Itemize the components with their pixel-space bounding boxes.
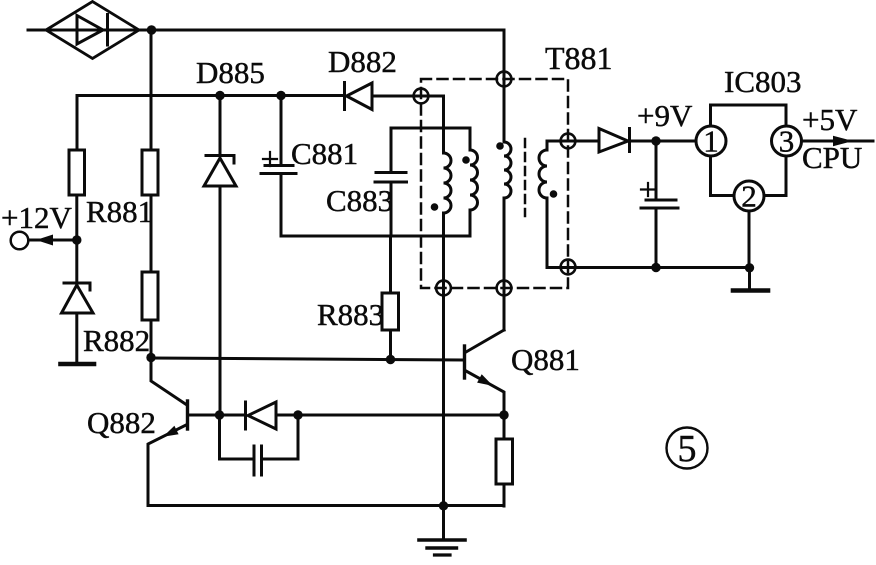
zener diode D885 — [204, 96, 236, 416]
node: R882 / Q882 collector junction — [146, 353, 155, 362]
node: bottom rail / winding ground column — [439, 501, 448, 510]
terminal circle: feedback bottom — [436, 281, 451, 296]
bridge rectifier diamond — [46, 2, 139, 59]
svg-text:+5V: +5V — [802, 102, 858, 137]
resistor (unlabeled) left column — [69, 150, 85, 195]
marker: circled figure 5 — [667, 428, 708, 469]
svg-text:C881: C881 — [291, 136, 358, 171]
transformer T881 shield box (dashed) — [421, 79, 568, 288]
wire: snubber bottom rail — [281, 235, 470, 238]
node: R883 / base line junction — [386, 355, 395, 364]
svg-text:5: 5 — [678, 428, 697, 470]
svg-text:R881: R881 — [86, 194, 153, 229]
svg-text:D882: D882 — [328, 44, 397, 79]
resistor (emitter, unlabeled) — [496, 439, 513, 484]
capacitor (base clamp, unlabeled) — [220, 415, 299, 475]
wire: feedback winding column — [442, 96, 445, 153]
terminal circle: bus entry — [414, 89, 429, 104]
wire: +12V terminal lead — [29, 239, 77, 242]
polarity dot primary — [496, 142, 504, 150]
wire: primary top vertical — [503, 30, 506, 142]
wire: diode anode to Q881 emitter node — [276, 414, 504, 417]
wire: ground rail (9V return) — [547, 266, 751, 269]
svg-text:R883: R883 — [317, 297, 384, 332]
node: Q882 base / D885 anode junction — [215, 410, 224, 419]
node: clamp cap right junction — [293, 410, 302, 419]
diode (9V rectifier) — [599, 129, 630, 153]
zener diode (12V clamp) — [62, 240, 94, 362]
node: bus / D885 junction — [215, 91, 224, 100]
wire: R881 to R882 — [150, 195, 153, 272]
svg-text:1: 1 — [703, 124, 719, 159]
wire: feedback winding down to ground column — [442, 213, 445, 506]
polarity dot feedback b — [462, 156, 470, 164]
polarity dot secondary — [550, 190, 558, 198]
node: pin2 ground junction — [745, 263, 754, 272]
wire: R882 to Q882 collector node — [150, 320, 153, 357]
svg-text:C883: C883 — [326, 183, 393, 218]
wire: feedback bus — [77, 94, 344, 97]
svg-text:CPU: CPU — [802, 140, 862, 175]
node: Q881 emitter junction — [499, 410, 508, 419]
transformer feedback winding a — [444, 153, 452, 213]
wire: left branch of bus down to +12V node — [76, 96, 79, 151]
transformer feedback winding b — [470, 128, 478, 236]
wire: rectifier to IC803 pin1 — [630, 140, 697, 143]
svg-text:IC803: IC803 — [724, 64, 802, 99]
wire: resistor to +12V node — [75, 195, 78, 240]
wire: top rail from bridge to primary top — [28, 29, 504, 32]
resistor R882 — [142, 272, 158, 320]
transformer T881 primary winding — [504, 142, 511, 198]
transformer secondary winding — [539, 141, 547, 268]
wire: primary bottom to Q881 collector — [503, 198, 506, 330]
node: +9V junction — [651, 136, 660, 145]
transformer core (dashed) — [524, 139, 527, 216]
arrow: +5V output — [833, 136, 853, 146]
terminal circle: secondary bottom — [561, 260, 576, 275]
wire: R883 to base line — [389, 330, 392, 359]
svg-text:R882: R882 — [83, 323, 150, 358]
wire: R883 column — [389, 236, 392, 293]
wire: IC803 pin2 to ground — [748, 211, 751, 268]
wire: R881 column vertical — [150, 30, 153, 150]
svg-text:3: 3 — [779, 124, 795, 159]
svg-text:+12V: +12V — [1, 200, 72, 235]
capacitor (9V filter, electrolytic) — [641, 141, 678, 268]
resistor R881 — [142, 150, 158, 195]
arrow: +12V direction — [36, 235, 53, 246]
diode (base clamp, unlabeled) — [220, 402, 277, 429]
node: +12V junction — [72, 235, 81, 244]
capacitor C881 (electrolytic) — [261, 96, 296, 237]
svg-text:Q882: Q882 — [87, 405, 156, 440]
resistor R883 — [382, 293, 399, 330]
node: junction top rail / R881 column — [147, 25, 157, 35]
node: filter cap ground — [651, 263, 660, 272]
wire: Q881 base line — [151, 358, 463, 360]
polarity dot feedback a — [431, 203, 439, 211]
wire: snubber top edge — [391, 127, 470, 130]
terminal: +12V output circle — [11, 232, 29, 250]
transistor Q882 (PNP) — [148, 357, 219, 506]
capacitor C883 — [375, 128, 407, 236]
svg-text:Q881: Q881 — [511, 342, 580, 377]
svg-text:+9V: +9V — [637, 98, 693, 133]
svg-text:D885: D885 — [196, 55, 265, 90]
ground symbol (main) — [419, 506, 465, 555]
svg-text:T881: T881 — [545, 40, 613, 76]
wire: pin3 output +5V — [802, 140, 874, 143]
diode D882 — [345, 83, 373, 110]
wire: emitter resistor top — [503, 415, 506, 439]
node: bus / C881 junction — [276, 91, 285, 100]
IC803 regulator — [696, 105, 802, 211]
wire: secondary top to rectifier — [547, 140, 599, 143]
transistor Q881 (NPN) — [465, 330, 505, 415]
ground symbol (IC803) — [733, 268, 768, 291]
wire: bottom rail — [148, 504, 504, 507]
wire: emitter resistor bottom — [503, 484, 506, 506]
terminal circle: primary top — [497, 72, 512, 87]
svg-text:2: 2 — [741, 179, 757, 214]
ground bar (12V zener) — [61, 362, 95, 367]
terminal circle: primary bottom — [497, 281, 512, 296]
terminal circle: secondary top — [561, 134, 576, 149]
wire: D882 anode to transformer pin — [372, 95, 444, 98]
